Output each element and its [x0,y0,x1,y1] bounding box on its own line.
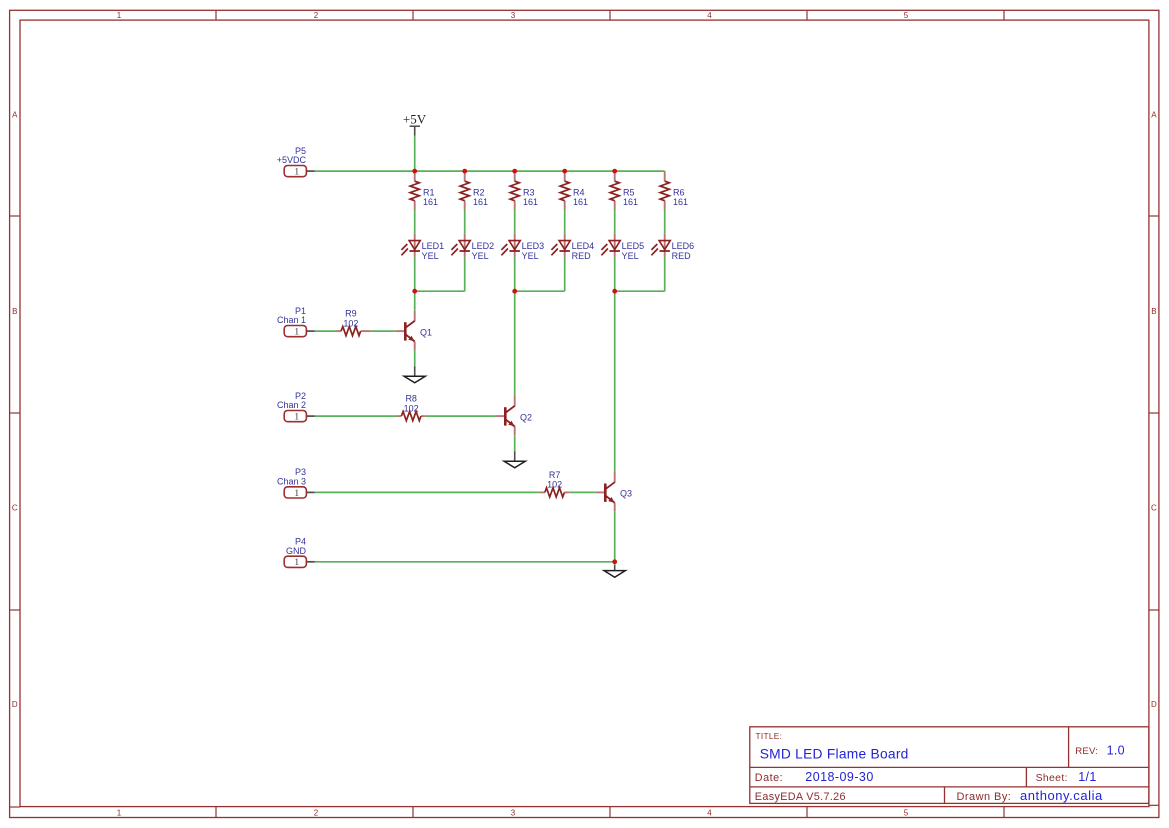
svg-text:Date:: Date: [755,772,783,784]
svg-text:Drawn By:: Drawn By: [957,791,1012,803]
wire R9 to Q1 base [371,330,396,332]
wire Q1 emitter to ground [414,350,416,366]
wire P1 to R9 [315,330,337,332]
resistor R4 [560,171,588,209]
svg-text:Q2: Q2 [520,412,532,422]
svg-text:R8: R8 [405,394,417,404]
connector P2 (Chan 2) [277,391,315,423]
LED6 [651,234,694,261]
svg-text:LED1: LED1 [422,241,445,251]
wire LED1 cathode down [414,257,416,291]
svg-text:Q1: Q1 [420,327,432,337]
svg-text:2018-09-30: 2018-09-30 [805,770,873,784]
wire Q2 emitter to ground [514,436,516,452]
svg-text:R9: R9 [345,309,357,319]
title block texts [755,731,1125,803]
resistor R5 [610,171,638,209]
ground Q1 [404,366,425,383]
connector P4 (GND) [284,537,315,569]
svg-text:SMD LED Flame Board: SMD LED Flame Board [760,747,909,762]
wire R2 to LED2 [464,209,466,234]
resistor R8 [397,394,426,421]
svg-text:102: 102 [404,403,419,413]
ground GND net [604,565,625,577]
svg-text:C: C [1151,504,1157,513]
svg-text:YEL: YEL [422,251,439,261]
svg-text:YEL: YEL [472,251,489,261]
wire Q1 collector [414,291,416,311]
svg-text:EasyEDA V5.7.26: EasyEDA V5.7.26 [755,791,846,803]
resistor R9 [336,309,370,336]
junction dots rail [412,169,617,174]
connector P1 (Chan 1) [277,306,315,338]
svg-text:Sheet:: Sheet: [1036,772,1068,784]
svg-text:1: 1 [294,558,299,568]
svg-text:161: 161 [473,197,488,207]
wire +5V rail [315,170,665,172]
svg-text:161: 161 [573,197,588,207]
svg-text:+5V: +5V [403,112,427,127]
svg-text:YEL: YEL [522,251,539,261]
title block frame [750,727,1149,804]
svg-text:A: A [1151,111,1157,120]
svg-text:161: 161 [623,197,638,207]
svg-text:Chan 1: Chan 1 [277,315,306,325]
wire P2 to R8 [315,415,397,417]
wire R8 to Q2 base [426,415,496,417]
row letters right [1151,111,1157,710]
svg-text:GND: GND [286,546,307,556]
svg-text:B: B [12,307,17,316]
svg-text:TITLE:: TITLE: [756,731,783,741]
LED1 [401,234,444,261]
row letters left [12,111,18,710]
svg-text:LED6: LED6 [672,241,695,251]
wire R6 to LED6 [664,209,666,234]
svg-text:1/1: 1/1 [1078,770,1096,784]
svg-text:R1: R1 [423,187,435,197]
svg-text:3: 3 [511,11,516,20]
wire jumper LED1-LED2 [415,290,465,292]
svg-text:1: 1 [294,328,299,338]
svg-text:1: 1 [294,489,299,499]
svg-text:R5: R5 [623,187,635,197]
svg-text:A: A [12,111,18,120]
svg-text:LED2: LED2 [472,241,495,251]
LED4 [551,234,594,261]
svg-text:D: D [1151,700,1157,709]
svg-text:102: 102 [343,318,358,328]
svg-text:1: 1 [294,168,299,178]
LED5 [601,234,644,261]
svg-text:LED4: LED4 [572,241,595,251]
svg-text:R7: R7 [549,470,561,480]
resistor R3 [510,171,538,209]
ground Q2 [504,451,525,468]
transistor Q1 [396,311,432,351]
svg-text:R2: R2 [473,187,485,197]
connector P3 (Chan 3) [277,467,315,499]
wire P3 to R7 [315,491,540,493]
svg-text:3: 3 [511,808,516,817]
svg-text:4: 4 [707,808,712,817]
svg-text:anthony.calia: anthony.calia [1020,788,1103,803]
svg-text:161: 161 [673,197,688,207]
row ticks right [1149,216,1159,805]
svg-text:D: D [12,700,18,709]
junction dots LED pairs [412,289,617,294]
resistor R6 [660,171,688,209]
svg-text:1: 1 [294,413,299,423]
svg-text:REV:: REV: [1075,746,1098,757]
svg-text:YEL: YEL [622,251,639,261]
svg-text:B: B [1151,307,1156,316]
svg-text:1: 1 [117,808,122,817]
svg-text:161: 161 [523,197,538,207]
svg-text:1.0: 1.0 [1107,743,1125,757]
svg-text:+5VDC: +5VDC [277,155,307,165]
LED2 [451,234,494,261]
svg-text:RED: RED [672,251,692,261]
wire LED5 cathode down [614,257,616,291]
wire jumper LED5-LED6 [615,290,665,292]
connector P5 (+5VDC) [277,146,315,178]
svg-text:Q3: Q3 [620,489,632,499]
svg-text:2: 2 [314,11,319,20]
svg-text:LED3: LED3 [522,241,545,251]
svg-text:LED5: LED5 [622,241,645,251]
transistor Q2 [496,396,532,436]
transistor Q3 [596,472,632,512]
svg-text:4: 4 [707,11,712,20]
wire R7 to Q3 base [569,491,596,493]
wire LED6 cathode down [664,257,666,291]
wire Q3 collector [614,291,616,472]
wire LED2 cathode down [464,257,466,291]
svg-text:R3: R3 [523,187,535,197]
column ticks top [216,10,1004,20]
wire Q2 collector [514,291,516,396]
svg-text:5: 5 [904,11,909,20]
row ticks left [10,216,20,807]
column ticks bottom [216,807,1004,818]
column numbers bottom [117,808,909,817]
junction dot GND net [612,559,617,564]
svg-text:C: C [12,504,18,513]
LED3 [501,234,544,261]
wire R3 to LED3 [514,209,516,234]
resistor R7 [540,470,569,497]
resistor R2 [460,171,488,209]
column numbers top [117,11,909,20]
svg-text:1: 1 [117,11,122,20]
wire +5V flag drop [414,136,416,172]
svg-text:RED: RED [572,251,592,261]
svg-text:R6: R6 [673,187,685,197]
wire LED4 cathode down [564,257,566,291]
svg-text:Chan 2: Chan 2 [277,400,306,410]
svg-text:R4: R4 [573,187,585,197]
wire LED3 cathode down [514,257,516,291]
svg-text:161: 161 [423,197,438,207]
wire Q3 emitter to GND node [614,512,616,565]
resistor R1 [410,171,438,209]
wire R5 to LED5 [614,209,616,234]
svg-text:102: 102 [547,480,562,490]
wire jumper LED3-LED4 [515,290,565,292]
wire R4 to LED4 [564,209,566,234]
svg-text:Chan 3: Chan 3 [277,477,306,487]
svg-text:5: 5 [904,808,909,817]
wire P4 GND net [315,561,615,563]
svg-text:2: 2 [314,808,319,817]
power flag +5V [403,112,427,136]
wire R1 to LED1 [414,209,416,234]
